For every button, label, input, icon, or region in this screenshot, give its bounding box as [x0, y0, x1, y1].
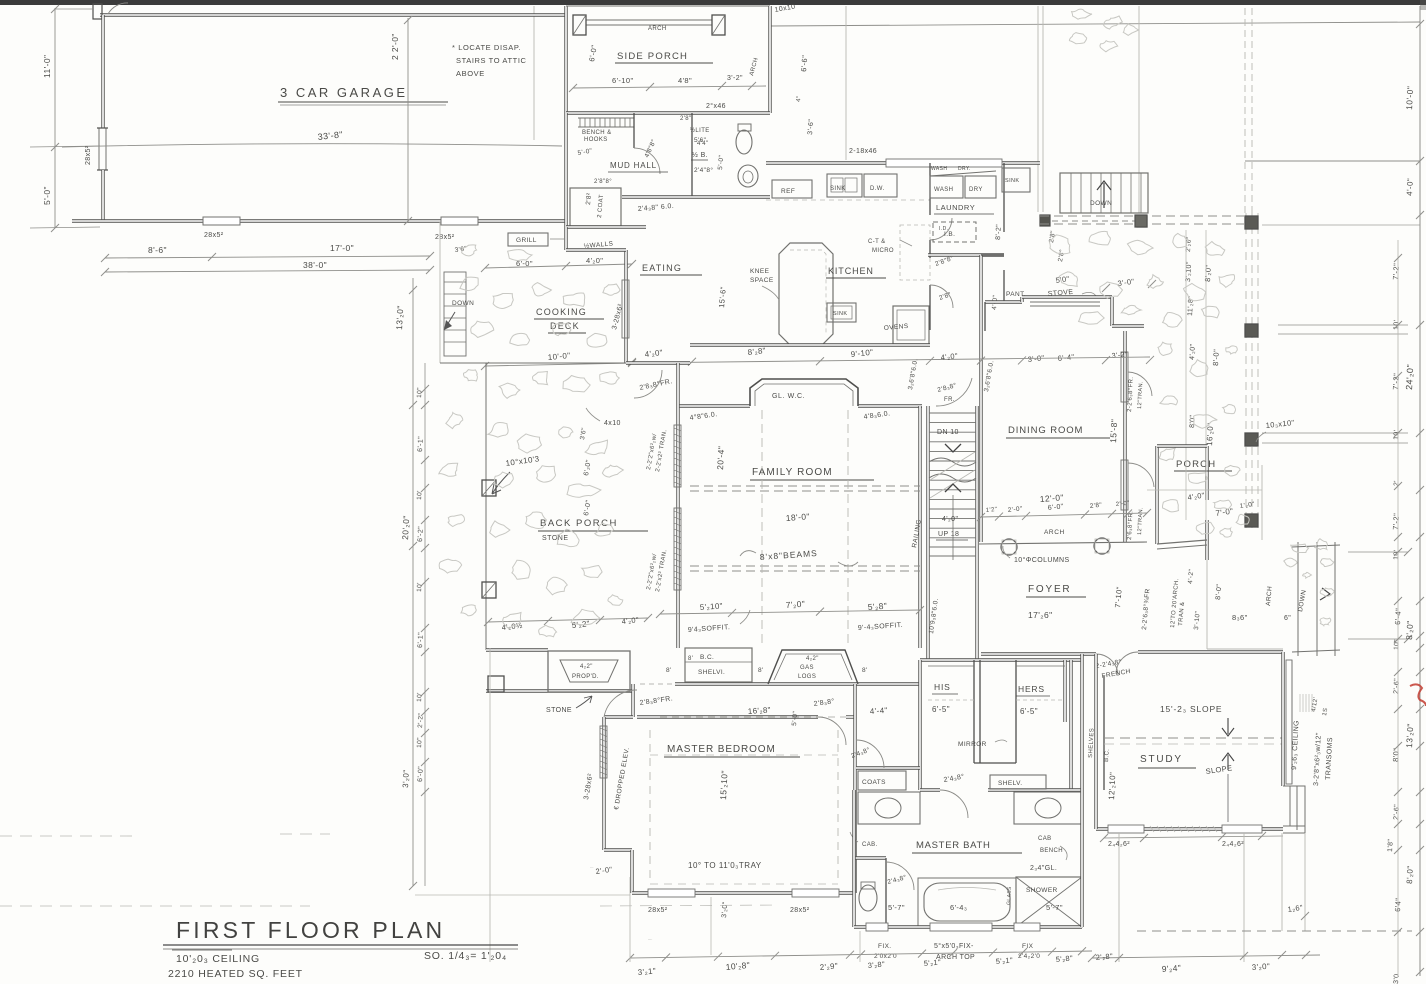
svg-text:2'4"8°: 2'4"8° [694, 166, 713, 174]
svg-text:12'₂10": 12'₂10" [1107, 772, 1117, 801]
gallery wall [675, 682, 920, 685]
svg-text:10': 10' [416, 582, 423, 592]
master west upper corner [604, 715, 633, 718]
svg-text:5'₂8": 5'₂8" [867, 601, 887, 612]
svg-text:MASTER BEDROOM: MASTER BEDROOM [667, 744, 776, 755]
counter dash [766, 199, 930, 201]
faint vertical x860 lower [859, 931, 861, 962]
kitchen east wall [929, 163, 931, 215]
svg-text:FOYER: FOYER [1028, 584, 1071, 595]
stair break squiggle [929, 458, 976, 482]
svg-text:15'-2₃ SLOPE: 15'-2₃ SLOPE [1160, 704, 1222, 714]
svg-text:2'8²: 2'8² [585, 192, 593, 205]
svg-text:8'₂8": 8'₂8" [747, 346, 766, 357]
svg-text:1'8": 1'8" [1387, 838, 1395, 852]
svg-text:28x5²: 28x5² [790, 907, 810, 914]
tray dashed rect [649, 730, 651, 880]
svg-text:KNEE: KNEE [750, 268, 770, 275]
roof line top right [770, 22, 1420, 26]
svg-text:3'₂0": 3'₂0" [721, 901, 729, 918]
posts mid top [1135, 215, 1147, 227]
bath north wall [920, 788, 940, 791]
svg-text:FIRST FLOOR PLAN: FIRST FLOOR PLAN [176, 917, 445, 943]
column left [1001, 539, 1017, 555]
svg-text:ABOVE: ABOVE [456, 69, 485, 78]
svg-text:15'-8": 15'-8" [1108, 419, 1119, 444]
svg-text:6'-1": 6'-1" [417, 632, 425, 648]
door arc kitchen hall2 [930, 285, 953, 308]
svg-text:18'-0": 18'-0" [785, 511, 810, 523]
lines from posts right [1278, 324, 1408, 326]
garage bottom dim lines [105, 256, 430, 258]
sink cabinet [827, 174, 862, 197]
powder bottom wall [622, 195, 770, 198]
faint verticals master area [710, 897, 712, 955]
porch-master jog wall [631, 684, 634, 717]
svg-text:8'₂0": 8'₂0" [1404, 620, 1415, 640]
svg-text:KITCHEN: KITCHEN [828, 266, 874, 276]
bench hatch [578, 117, 634, 119]
svg-text:SHELVI.: SHELVI. [698, 669, 725, 676]
toilet powder [736, 130, 752, 154]
door arc to bath [940, 790, 968, 818]
porch north dashed wall [1040, 215, 1245, 217]
svg-text:DOWN: DOWN [1090, 200, 1112, 207]
mirror alcove bottom [974, 762, 1016, 764]
family north wall [678, 404, 750, 407]
stove bay inner lines [1030, 301, 1100, 303]
entry west wall [1155, 446, 1158, 544]
toilet room [854, 856, 886, 859]
svg-text:SO. 1/4₃= 1'₂0₄: SO. 1/4₃= 1'₂0₄ [424, 950, 507, 962]
svg-text:SHELV.: SHELV. [998, 780, 1022, 787]
svg-text:3'-2": 3'-2" [727, 75, 743, 82]
svg-text:FIX: FIX [1022, 943, 1034, 950]
svg-text:5'-7": 5'-7" [888, 903, 905, 912]
svg-text:3 CAR GARAGE: 3 CAR GARAGE [280, 85, 408, 100]
entry east wall [1205, 446, 1208, 500]
right lines from steps [1348, 551, 1408, 553]
dining east windows [1121, 352, 1128, 402]
tall cabinets dashed [900, 225, 930, 280]
svg-text:15'₂10": 15'₂10" [718, 770, 730, 800]
svg-text:2 2'-0": 2 2'-0" [390, 33, 400, 60]
garage bottom window 2 [441, 217, 478, 225]
svg-text:DECK: DECK [550, 321, 580, 331]
svg-text:COATS: COATS [862, 779, 886, 786]
svg-text:10'₂8": 10'₂8" [725, 960, 750, 972]
svg-text:1'2": 1'2" [986, 507, 998, 514]
master door arc east [818, 717, 846, 745]
door arc toilet [886, 862, 914, 890]
stones back porch [499, 383, 520, 398]
foyer arch line [979, 542, 1147, 544]
svg-text:GRILL: GRILL [516, 237, 537, 244]
svg-text:4₂2": 4₂2" [580, 664, 593, 670]
svg-text:4'-4": 4'-4" [870, 706, 889, 716]
svg-text:8': 8' [758, 667, 764, 674]
svg-text:ARCH: ARCH [648, 26, 667, 32]
entry stoop stones [1261, 465, 1263, 540]
svg-text:½ B.: ½ B. [692, 151, 708, 159]
svg-text:5'₂1": 5'₂1" [995, 956, 1013, 966]
master east wall [853, 684, 856, 893]
svg-text:8₃6": 8₃6" [1232, 613, 1248, 622]
svg-text:MUD HALL: MUD HALL [610, 161, 657, 170]
svg-text:2'-2": 2'-2" [417, 713, 425, 729]
svg-text:6'-5": 6'-5" [1020, 707, 1038, 716]
svg-text:10': 10' [416, 692, 423, 702]
svg-text:11'-0": 11'-0" [42, 55, 52, 78]
svg-text:2₃4"GL.: 2₃4"GL. [1030, 865, 1057, 872]
stair shaft walls [926, 406, 929, 660]
label 2-8-8 fr deck door [634, 370, 662, 398]
stones cooking deck [460, 277, 478, 290]
hall door arc top [936, 378, 972, 406]
slope arrows [1227, 718, 1229, 734]
shower [1016, 877, 1082, 927]
stair down box [1060, 173, 1148, 213]
svg-text:28x5²: 28x5² [435, 234, 455, 241]
kitchen window 2-18x46 [886, 159, 1002, 167]
svg-text:8': 8' [688, 656, 693, 662]
mud hall partition [633, 113, 635, 148]
master west wall [602, 717, 605, 850]
side porch post right [712, 15, 725, 35]
mud hall west wall [564, 113, 567, 227]
laundry-pantry wall piece [981, 254, 1004, 256]
svg-text:2'₂8": 2'₂8" [1095, 952, 1113, 962]
dashed line y931 [1137, 930, 1412, 932]
tub [918, 878, 1016, 926]
door arcs to porch [1128, 372, 1152, 396]
svg-text:4'₂0": 4'₂0" [940, 351, 958, 362]
svg-text:5'6": 5'6" [694, 137, 707, 144]
family west windows [674, 425, 681, 487]
closet north wall [920, 658, 1082, 661]
svg-text:* LOCATE DISAP.: * LOCATE DISAP. [452, 43, 521, 52]
svg-text:MASTER BATH: MASTER BATH [916, 840, 991, 851]
svg-text:UP 18: UP 18 [938, 531, 959, 538]
svg-text:28x5²: 28x5² [648, 907, 668, 914]
master west window [600, 726, 607, 778]
porch east triple lines [1245, 213, 1247, 528]
svg-text:DRY.: DRY. [958, 166, 971, 172]
svg-text:7'-2": 7'-2" [1391, 373, 1401, 390]
fireplace propane [548, 651, 630, 692]
svg-text:BENCH &: BENCH & [582, 130, 611, 136]
door arc coats [856, 740, 884, 768]
stair treads [929, 412, 976, 414]
svg-text:SIDE PORCH: SIDE PORCH [617, 51, 688, 62]
svg-text:10": 10" [416, 737, 424, 748]
his vanity [858, 792, 920, 824]
svg-text:B.C.: B.C. [1104, 749, 1111, 763]
laundry sink box [1002, 168, 1030, 192]
svg-text:½LITE: ½LITE [690, 127, 710, 134]
family east wall [918, 406, 921, 648]
svg-text:REF: REF [781, 188, 795, 195]
svg-text:6'-4₃: 6'-4₃ [950, 903, 967, 912]
svg-text:WASH: WASH [931, 166, 947, 172]
svg-text:4'₂0": 4'₂0" [942, 516, 958, 523]
stove bay walls [985, 300, 1022, 303]
svg-text:4'₂0": 4'₂0" [1189, 343, 1197, 360]
svg-text:2'-6": 2'-6" [1393, 804, 1401, 820]
svg-text:STUDY: STUDY [1140, 754, 1183, 765]
svg-text:5'₂1": 5'₂1" [923, 958, 941, 968]
svg-text:SINK: SINK [1005, 178, 1019, 184]
svg-text:10": 10" [416, 387, 424, 398]
svg-text:ARCH: ARCH [1044, 529, 1065, 536]
scanner dark top edge [0, 0, 1426, 5]
stones front steps [1291, 544, 1309, 552]
mud door arc [634, 148, 660, 174]
svg-text:HIS: HIS [934, 682, 951, 692]
dim line corridor y361 [632, 359, 981, 363]
hers vanity [1014, 792, 1082, 824]
family north wall west part [626, 361, 690, 364]
svg-text:5'₂8": 5'₂8" [1055, 954, 1073, 964]
svg-text:6": 6" [1284, 615, 1291, 622]
svg-text:2210 HEATED SQ. FEET: 2210 HEATED SQ. FEET [168, 968, 303, 980]
toilet master [859, 885, 877, 911]
svg-text:15'-6": 15'-6" [717, 286, 728, 308]
svg-text:MIRROR: MIRROR [958, 741, 987, 748]
pedestal sink powder [738, 165, 758, 187]
porch sw post [488, 676, 504, 692]
powder room west wall [691, 113, 693, 197]
closet rods dashed [928, 699, 974, 701]
master south windows [648, 889, 695, 897]
svg-text:8'₂0": 8'₂0" [1203, 264, 1213, 282]
shelv box bath [990, 775, 1046, 789]
garage top wall [100, 13, 566, 16]
dim vertical pair x413 [412, 278, 414, 886]
svg-text:16'₂0": 16'₂0" [1205, 422, 1215, 446]
gas logs niche [768, 650, 858, 684]
svg-text:16'₂8": 16'₂8" [748, 705, 772, 716]
garage left wall upper [101, 15, 104, 128]
svg-text:6'-2": 6'-2" [417, 526, 425, 542]
svg-text:SINK: SINK [833, 311, 847, 317]
red pen mark [1410, 684, 1426, 706]
svg-text:2'₂9": 2'₂9" [819, 961, 838, 972]
inner right dim line [1397, 240, 1399, 976]
svg-text:5°x5'0₃FIX-: 5°x5'0₃FIX- [934, 942, 974, 950]
stones dining porch [1049, 235, 1070, 254]
svg-text:4'₂0": 4'₂0" [644, 348, 663, 359]
svg-text:10'₂0₃ CEILING: 10'₂0₃ CEILING [176, 953, 260, 965]
stones entry porch [1214, 500, 1232, 509]
bath east wall [1080, 790, 1083, 927]
svg-text:DOWN: DOWN [452, 300, 474, 307]
svg-text:4'₂0": 4'₂0" [621, 615, 639, 626]
svg-text:7'-2": 7'-2" [1391, 263, 1401, 280]
svg-text:FR.: FR. [944, 397, 955, 403]
svg-text:5'-0": 5'-0" [717, 154, 725, 170]
extension line master sw [415, 894, 630, 896]
side porch top edge [566, 5, 770, 7]
stair up chevron [945, 484, 961, 492]
garage bottom window 1 [203, 217, 240, 225]
svg-text:SPACE: SPACE [750, 277, 774, 284]
svg-text:9'₂4": 9'₂4" [1161, 963, 1181, 974]
island sink box [827, 303, 856, 322]
kitchen north wall [766, 161, 1040, 164]
bc shelves niche [685, 648, 752, 682]
ovens cabinet [893, 306, 929, 344]
mud bottom wall [566, 225, 646, 228]
svg-text:2'-6": 2'-6" [1393, 678, 1401, 694]
side porch dim line [573, 86, 766, 88]
svg-text:8'-0": 8'-0" [1215, 584, 1223, 601]
svg-text:HERS: HERS [1018, 684, 1045, 694]
svg-text:CAB.: CAB. [862, 842, 878, 848]
svg-text:GLASS: GLASS [1006, 886, 1013, 905]
porch west edge [485, 363, 487, 650]
svg-text:STONE: STONE [546, 707, 572, 714]
svg-text:7'-10": 7'-10" [1113, 586, 1124, 608]
svg-text:3'₂0": 3'₂0" [590, 867, 594, 869]
study dims bottom ticks [1104, 836, 1283, 838]
beams dashed [690, 485, 920, 487]
svg-text:13'₂0": 13'₂0" [1404, 723, 1415, 748]
svg-text:WASH: WASH [934, 187, 953, 193]
svg-text:BACK PORCH: BACK PORCH [540, 518, 618, 529]
svg-text:3'-6": 3'-6" [807, 119, 815, 136]
svg-text:4'-2": 4'-2" [1187, 568, 1195, 584]
deck south dim line [485, 363, 632, 366]
closet divider hers [1015, 660, 1017, 763]
svg-text:3'₂8": 3'₂8" [867, 960, 885, 970]
svg-text:HOOKS: HOOKS [584, 137, 608, 143]
porch inner dim line [1185, 230, 1187, 520]
svg-text:20'₂0": 20'₂0" [400, 515, 411, 540]
porch bottom dim labels [488, 618, 648, 622]
svg-text:3'₂0": 3'₂0" [401, 769, 411, 788]
svg-text:DINING ROOM: DINING ROOM [1008, 425, 1083, 436]
right master dim line [1419, 6, 1421, 976]
svg-text:EATING: EATING [642, 263, 682, 273]
svg-text:2'8"8°: 2'8"8° [594, 179, 612, 185]
svg-text:3'0: 3'0 [1393, 973, 1401, 984]
svg-text:7'-2": 7'-2" [1391, 513, 1401, 530]
study below verticals [1118, 833, 1120, 962]
svg-text:DRY: DRY [969, 187, 983, 193]
study north transom hatch [1299, 694, 1301, 712]
svg-text:3'₂1": 3'₂1" [637, 966, 656, 977]
svg-text:6'-1": 6'-1" [417, 436, 425, 452]
faint dashes near title [0, 835, 140, 837]
svg-text:5'₂10": 5'₂10" [700, 601, 724, 612]
svg-text:8'₂0": 8'₂0" [1405, 865, 1415, 884]
study south wall [1096, 827, 1283, 830]
svg-text:4'8": 4'8" [678, 76, 692, 85]
porch roof edge lines top right [1244, 8, 1246, 213]
bottom dim line left [630, 951, 1092, 958]
dim line 22-0 vertical [407, 18, 409, 222]
left dim line 11-0 / 5-0 [54, 8, 56, 228]
svg-text:20'-4": 20'-4" [715, 446, 726, 471]
svg-text:28x5²: 28x5² [204, 232, 224, 239]
svg-text:2°x46: 2°x46 [706, 102, 726, 110]
side porch arch beam [586, 19, 712, 21]
study west wall [1094, 654, 1097, 829]
svg-text:FAMILY ROOM: FAMILY ROOM [752, 467, 833, 478]
svg-text:4x10: 4x10 [604, 420, 621, 427]
svg-text:LAUNDRY: LAUNDRY [936, 203, 975, 212]
foyer dim row [981, 513, 1147, 517]
svg-text:SHOWER: SHOWER [1026, 887, 1058, 894]
side porch east wall [768, 6, 771, 113]
svg-text:13'₂0": 13'₂0" [394, 305, 405, 330]
svg-text:6'-0": 6'-0" [417, 766, 425, 782]
svg-text:CAB: CAB [1038, 836, 1052, 842]
svg-text:24'₂0": 24'₂0" [1404, 364, 1415, 390]
svg-text:8'0": 8'0" [1189, 414, 1197, 428]
stair down chevron [945, 444, 961, 452]
stones side porch top [1072, 9, 1092, 19]
svg-text:GL. W.C.: GL. W.C. [772, 393, 805, 400]
svg-text:10°ΦCOLUMNS: 10°ΦCOLUMNS [1014, 556, 1070, 564]
garage corner arc [108, 3, 128, 14]
svg-text:3'₂0": 3'₂0" [1252, 962, 1271, 972]
svg-text:MICRO: MICRO [872, 248, 894, 254]
glass wc niche [750, 379, 858, 406]
svg-text:SINK: SINK [830, 186, 846, 192]
svg-text:8'-6": 8'-6" [148, 245, 167, 255]
grid pair x1038 [1037, 6, 1039, 212]
svg-text:PORCH: PORCH [1176, 459, 1216, 470]
porch posts right [1245, 216, 1258, 229]
posts below stairs [1040, 215, 1050, 226]
svg-text:17'-0": 17'-0" [330, 243, 354, 253]
study east wall [1281, 652, 1284, 700]
svg-text:10° TO 11'0₃TRAY: 10° TO 11'0₃TRAY [688, 861, 762, 870]
svg-text:5'-0": 5'-0" [791, 710, 799, 726]
front porch edge [1206, 560, 1208, 649]
svg-text:2₄4₂6²: 2₄4₂6² [1222, 841, 1244, 848]
closet divider his [973, 660, 975, 763]
front steps rails [1297, 542, 1299, 656]
svg-text:BENCH: BENCH [1040, 848, 1063, 854]
stones right porch strip [1158, 342, 1172, 355]
svg-text:8'-2": 8'-2" [995, 224, 1003, 240]
side porch post left [573, 15, 586, 35]
deck down steps [444, 272, 466, 356]
study south windows [1108, 825, 1144, 833]
garage left wall lower [101, 170, 104, 221]
closet east wall [1063, 660, 1066, 722]
dining west wall [979, 255, 982, 542]
eating window hatch [622, 280, 629, 338]
french doors arcs [1096, 654, 1118, 676]
bath west wall [852, 790, 855, 927]
entry top wall [1157, 444, 1207, 447]
svg-text:ARCH TOP: ARCH TOP [936, 954, 975, 961]
svg-text:8'0": 8'0" [1391, 748, 1401, 762]
dw cabinet [864, 174, 897, 197]
porch west posts [482, 480, 496, 496]
grid line x846 [845, 6, 847, 160]
study east window band [1286, 660, 1292, 784]
title underline [163, 944, 518, 946]
master south jog [604, 848, 632, 851]
svg-text:28x5²: 28x5² [85, 145, 92, 165]
garage bottom wall [72, 219, 566, 222]
svg-text:6'-5": 6'-5" [932, 705, 950, 714]
